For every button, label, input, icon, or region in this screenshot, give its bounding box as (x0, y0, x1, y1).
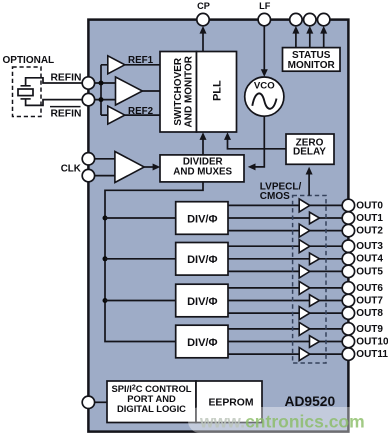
wire crystal bottom to REFINB (26, 99, 88, 106)
pin REFIN (82, 77, 94, 89)
wire CLK to buffer (95, 159, 115, 176)
chip body AD9520 (88, 20, 348, 432)
buffer REF differential (116, 77, 143, 105)
pin OUT5 (342, 265, 354, 277)
svg-text:REF2: REF2 (128, 106, 154, 117)
node REFINB junction (99, 97, 104, 102)
svg-text:CP: CP (197, 1, 210, 11)
pin OUT3 (342, 240, 354, 252)
label REFIN-bar (50, 107, 81, 120)
svg-text:CLK: CLK (61, 164, 81, 175)
svg-text:DIV/Φ: DIV/Φ (187, 213, 217, 225)
pin SPI (82, 396, 94, 408)
buffer REF1 (108, 56, 125, 74)
svg-text:OUT0: OUT0 (356, 200, 383, 211)
driver OUT11 (299, 348, 310, 361)
block SWITCHOVER AND MONITOR (160, 52, 197, 133)
wire VCO to divider (248, 116, 264, 170)
pin REFINB (82, 93, 94, 105)
pin OUT10 (342, 335, 354, 347)
wire bus to div3 (105, 300, 176, 302)
driver OUT5 (299, 265, 310, 278)
svg-text:AND MONITOR: AND MONITOR (184, 55, 195, 127)
driver OUT1 (310, 212, 320, 224)
pin CLKB (82, 169, 94, 181)
driver OUT7 (310, 295, 320, 307)
driver OUT10 (310, 336, 320, 348)
wire SPI pin to block (95, 401, 107, 403)
svg-text:REFIN: REFIN (51, 72, 82, 83)
block STATUS MONITOR (283, 48, 341, 72)
driver OUT4 (310, 253, 320, 265)
wire crystal top to REFIN (26, 78, 88, 86)
driver OUT0 (299, 199, 310, 212)
pin OUT6 (342, 282, 354, 294)
block DIV1 (176, 202, 228, 235)
wire status to pin1 (292, 26, 299, 48)
pin OUT4 (342, 253, 354, 265)
block DIVIDER AND MUXES (160, 155, 244, 182)
wire zero delay to PLL (224, 132, 286, 149)
driver OUT2 (299, 224, 310, 237)
wire status to pin3 (320, 26, 327, 48)
wire REF2 to switchover (125, 114, 160, 116)
driver OUT8 (299, 307, 310, 320)
svg-text:DELAY: DELAY (293, 146, 326, 157)
wire bus to div2 (105, 258, 176, 260)
pin LF (258, 13, 270, 25)
wire PLL to CP pin (200, 26, 207, 52)
pin status2 (304, 13, 316, 25)
svg-text:OUT9: OUT9 (356, 324, 383, 335)
svg-text:SWITCHOVER: SWITCHOVER (173, 57, 184, 126)
wire CLK buffer to divider (144, 164, 160, 171)
pin status3 (318, 13, 330, 25)
pin status1 (290, 13, 302, 25)
svg-text:PLL: PLL (212, 80, 224, 101)
svg-text:OUT2: OUT2 (356, 226, 383, 237)
pin OUT2 (342, 224, 354, 236)
wire REFIN bus (95, 65, 116, 115)
svg-text:DIV/Φ: DIV/Φ (187, 337, 217, 349)
pin OUT8 (342, 307, 354, 319)
wire REF diff to switchover (142, 90, 160, 92)
pin CLK (82, 153, 94, 165)
node REFIN junction (99, 81, 104, 86)
wire LF to VCO (261, 26, 268, 77)
pin OUT9 (342, 323, 354, 335)
wire out rows (228, 205, 348, 354)
driver OUT3 (299, 240, 310, 253)
optional crystal dashed enclosure (13, 67, 42, 117)
block ZERO DELAY (286, 134, 334, 164)
block DIV2 (176, 243, 228, 276)
svg-text:OUT4: OUT4 (356, 254, 383, 265)
svg-text:OUT3: OUT3 (356, 241, 383, 252)
wire output feedback to zero delay (306, 167, 313, 196)
output drivers dashed enclosure (293, 196, 326, 364)
driver OUT6 (299, 281, 310, 294)
pin OUT7 (342, 294, 354, 306)
crystal Y1 (18, 86, 33, 99)
wire bus to div1 (105, 217, 176, 219)
svg-text:OUT10: OUT10 (356, 336, 388, 347)
svg-text:EEPROM: EEPROM (208, 397, 253, 408)
pin OUT11 (342, 348, 354, 360)
svg-text:LF: LF (259, 1, 271, 11)
svg-text:VCO: VCO (254, 80, 275, 91)
pin OUT1 (342, 212, 354, 224)
wire status to pin2 (306, 26, 313, 48)
node bus tap1 (103, 216, 108, 221)
buffer CLK (115, 152, 144, 183)
svg-text:REF1: REF1 (128, 55, 154, 66)
node bus tap3 (103, 298, 108, 303)
block DIV4 (176, 325, 228, 358)
wire REF1 to switchover (125, 64, 160, 66)
svg-text:www.cntronics.com: www.cntronics.com (199, 412, 365, 432)
svg-text:OUT1: OUT1 (356, 213, 383, 224)
svg-text:OUT7: OUT7 (356, 295, 383, 306)
svg-text:REFIN: REFIN (51, 109, 82, 120)
svg-text:OPTIONAL: OPTIONAL (3, 55, 55, 66)
svg-text:OUT5: OUT5 (356, 266, 383, 277)
svg-text:DIV/Φ: DIV/Φ (187, 254, 217, 266)
pin OUT0 (342, 199, 354, 211)
label LVPECL/CMOS (260, 182, 302, 202)
svg-text:DIV/Φ: DIV/Φ (187, 296, 217, 308)
oscillator VCO (245, 77, 284, 116)
block SPI I2C CONTROL (107, 381, 196, 423)
block DIV3 (176, 284, 228, 317)
pin CP (197, 13, 209, 25)
svg-text:DIGITAL LOGIC: DIGITAL LOGIC (117, 403, 186, 414)
node bus tap2 (103, 256, 108, 261)
svg-text:OUT8: OUT8 (356, 308, 383, 319)
buffer REF2 (108, 106, 125, 124)
wire divider to channel bus (105, 182, 203, 342)
watermark band (188, 407, 388, 433)
wire divider to PLL feedback (200, 132, 207, 155)
svg-text:OUT6: OUT6 (356, 283, 383, 294)
svg-text:MONITOR: MONITOR (288, 60, 336, 71)
svg-text:AD9520: AD9520 (285, 394, 336, 409)
driver OUT9 (299, 322, 310, 335)
svg-text:OUT11: OUT11 (356, 349, 388, 360)
svg-text:AND MUXES: AND MUXES (173, 167, 232, 178)
block PLL (197, 52, 237, 133)
block EEPROM (196, 381, 262, 423)
svg-text:CMOS: CMOS (260, 191, 290, 202)
